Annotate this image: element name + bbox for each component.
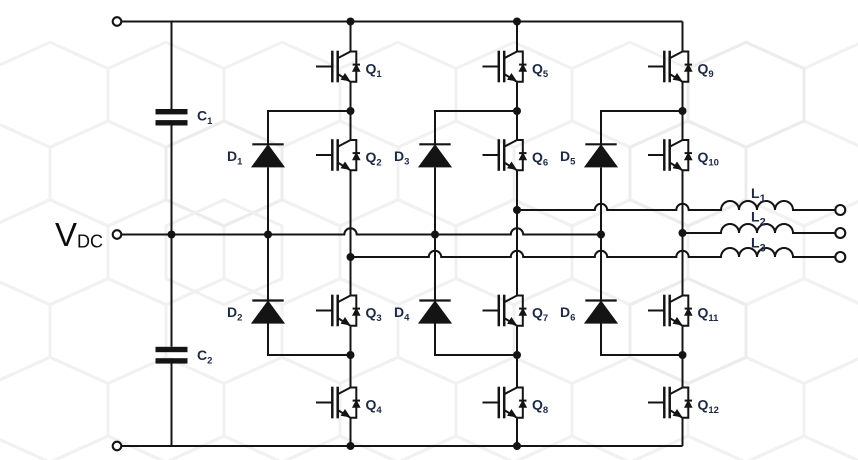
junction: clamp branch 1 neutral [264,231,272,239]
svg-text:Q4: Q4 [366,397,383,417]
svg-text:Q7: Q7 [532,305,548,325]
svg-text:Q10: Q10 [698,149,719,169]
svg-text:Q8: Q8 [532,397,548,417]
junction: leg 1 bottom rail [347,442,355,450]
wire: clamp branch leg 2 lower connection [435,324,517,356]
svg-text:D6: D6 [560,304,575,324]
wire: phase B line (leg 3 to L2) [683,224,836,233]
wire: clamp branch leg 2 mid [434,168,436,302]
transistor Q12 [648,387,692,419]
junction: leg 2 lower clamp node [513,351,521,359]
wire: phase C line (leg 1 to L3) [351,248,836,257]
transistor Q7 [483,295,527,327]
junction: leg 1 top rail [347,18,355,26]
transistor Q2 [316,139,360,171]
wire: leg 2 vertical segments [516,22,518,447]
wire: clamp branch leg 3 mid [600,168,602,302]
transistor Q8 [483,387,527,419]
junction: leg 1 lower clamp node [347,351,355,359]
wire: top DC+ rail [121,21,682,23]
terminal: DC+ input [113,17,122,26]
capacitor C2 [156,347,188,364]
diode D2 [252,301,283,323]
transistor Q4 [316,387,360,419]
wire: clamp branch leg 3 lower connection [601,324,683,356]
terminal: phase C output [835,252,845,262]
junction: leg 3 phase node [679,229,687,237]
svg-text:Q3: Q3 [366,305,382,325]
junction: clamp branch 3 neutral [597,231,605,239]
junction: leg 1 upper clamp node [347,107,355,115]
svg-text:D2: D2 [227,304,242,324]
diode D4 [419,301,450,323]
junction: leg 2 phase node [513,206,521,214]
junction: leg 2 bottom rail [513,442,521,450]
transistor Q5 [483,51,527,83]
wire: phase A line (leg 2 to L1) [517,201,835,210]
transistor Q11 [648,295,692,327]
junction: clamp branch 2 neutral [431,231,439,239]
terminal: VDC midpoint [113,230,122,239]
svg-text:Q12: Q12 [698,397,719,417]
junction: leg 3 lower clamp node [679,351,687,359]
svg-text:Q2: Q2 [366,149,382,169]
svg-text:D3: D3 [394,148,409,168]
svg-text:C2: C2 [197,347,212,367]
svg-text:Q6: Q6 [532,149,548,169]
wire: bottom DC- rail [121,445,682,447]
wire: capacitor branch [171,22,173,447]
svg-text:D5: D5 [560,148,576,168]
transistor Q6 [483,139,527,171]
terminal: phase A output [835,205,845,215]
wire: clamp branch leg 1 upper connection [268,111,351,145]
wire: neutral midpoint rail [121,228,601,234]
wire: clamp branch leg 3 upper connection [601,111,683,145]
junction: leg 2 upper clamp node [513,107,521,115]
transistor Q9 [648,51,692,83]
junction: leg 1 phase node [347,253,355,261]
terminal: DC- input [113,442,122,451]
transistor Q10 [648,139,692,171]
svg-text:Q11: Q11 [698,305,720,325]
svg-text:D4: D4 [394,304,410,324]
capacitor C1 [156,109,188,126]
svg-text:C1: C1 [197,108,213,128]
wire: leg 3 vertical segments [682,22,684,447]
transistor Q1 [316,51,360,83]
junction: leg 3 upper clamp node [679,107,687,115]
svg-text:D1: D1 [227,148,243,168]
transistor Q3 [316,295,360,327]
wire: leg 1 vertical segments [350,22,352,447]
diode D5 [585,144,616,166]
terminal: phase B output [835,228,845,238]
junction: leg 2 top rail [513,18,521,26]
svg-text:Q9: Q9 [698,61,714,81]
wire: clamp branch leg 2 upper connection [435,111,517,145]
diode D3 [419,144,450,166]
diode D6 [585,301,616,323]
svg-text:Q1: Q1 [366,61,383,81]
diode D1 [252,144,283,166]
wire: clamp branch leg 1 lower connection [268,324,351,356]
svg-text:Q5: Q5 [532,61,549,81]
junction: C1-C2 midpoint [168,231,176,239]
wire: clamp branch leg 1 mid [267,168,269,302]
